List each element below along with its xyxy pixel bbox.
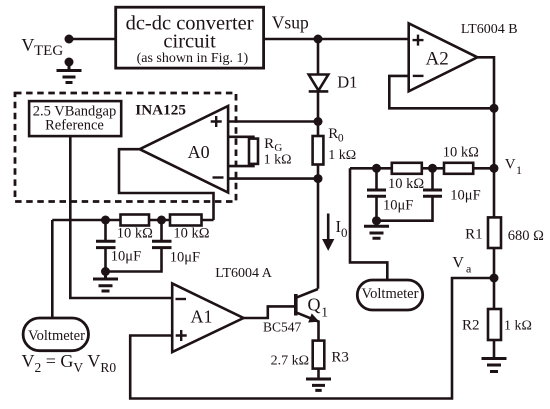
- 2.5 V Bandgap Reference box: [29, 101, 121, 136]
- wire center rail R0 to Q1 collector: [317, 179, 320, 289]
- svg-text:LT6004 B: LT6004 B: [461, 22, 518, 37]
- svg-text:Q: Q: [308, 295, 321, 315]
- svg-text:10μF: 10μF: [170, 250, 200, 266]
- wire left filter chain: [52, 219, 213, 222]
- svg-text:R1: R1: [465, 227, 483, 243]
- svg-text:R2: R2: [462, 318, 480, 334]
- node right filter cap2: [428, 164, 437, 173]
- node V1: [490, 164, 499, 173]
- op-amp A0 (INA125 input stage, points left): [140, 106, 228, 193]
- node VTEG ground terminal: [65, 58, 74, 67]
- svg-text:10μF: 10μF: [111, 249, 141, 265]
- svg-text:BC547: BC547: [263, 320, 302, 335]
- resistor 10k left chain second: [170, 215, 202, 226]
- svg-text:V: V: [21, 35, 34, 55]
- node Vsup: [314, 35, 323, 44]
- wire A1 output to Q1 base: [244, 306, 296, 318]
- svg-text:1 kΩ: 1 kΩ: [264, 153, 292, 168]
- wire right rail down to V1: [493, 108, 496, 168]
- wire A0 output path: [119, 149, 214, 220]
- resistor 10k left chain first: [121, 215, 150, 226]
- pin - of A2: [413, 75, 424, 77]
- svg-text:a: a: [466, 262, 472, 276]
- svg-text:D1: D1: [337, 73, 357, 92]
- ground: [364, 221, 389, 239]
- wire RG pin lower: [228, 164, 253, 166]
- svg-text:10μF: 10μF: [450, 188, 480, 204]
- node R0 top: [314, 117, 323, 126]
- resistor RG: [249, 139, 258, 164]
- svg-text:Vsup: Vsup: [272, 13, 309, 33]
- wire A0 + input to R0 top node: [228, 120, 318, 123]
- wire Vsup node down to D1: [317, 39, 320, 75]
- wire A0 - input to R0 bottom node: [228, 177, 318, 180]
- wire voltmeter V2 lead: [51, 220, 54, 318]
- wire A2 feedback (output to - input): [389, 76, 494, 108]
- wire right filter chain: [350, 167, 494, 170]
- svg-text:10 kΩ: 10 kΩ: [388, 176, 424, 192]
- pin - of A1: [176, 298, 187, 300]
- pin + of A1: [176, 330, 187, 341]
- wire Vsup: dc-dc box to A2 + input: [264, 38, 409, 41]
- svg-text:Voltmeter: Voltmeter: [362, 286, 419, 302]
- resistor R1: [488, 217, 501, 248]
- arrow I0: [323, 214, 334, 250]
- svg-text:680 Ω: 680 Ω: [508, 228, 544, 244]
- wire A1 + input feedback from Va: [130, 278, 494, 399]
- dc-dc converter box: [116, 7, 264, 68]
- voltmeter Va: [357, 280, 422, 310]
- pin + of A2: [413, 35, 424, 46]
- op-amp A2: [409, 23, 478, 91]
- svg-text:10μF: 10μF: [383, 198, 413, 214]
- ground: [306, 379, 331, 390]
- svg-text:A1: A1: [191, 307, 213, 327]
- node left filter cap1: [101, 216, 110, 225]
- transistor Q1: [296, 289, 319, 341]
- ground: [482, 359, 507, 372]
- svg-text:R3: R3: [331, 350, 349, 366]
- op-amp A1: [172, 283, 243, 352]
- svg-text:R: R: [328, 126, 338, 142]
- node VTEG terminal: [65, 35, 74, 44]
- resistor 10k right chain first: [392, 163, 422, 174]
- resistor R2: [488, 309, 501, 340]
- capacitor 10uF right second: [377, 168, 443, 220]
- node Va: [490, 274, 499, 283]
- wire bandgap reference output: [70, 136, 172, 298]
- wire VTEG to dc-dc box: [69, 38, 116, 41]
- svg-text:INA125: INA125: [135, 102, 186, 119]
- svg-text:10 kΩ: 10 kΩ: [173, 226, 209, 242]
- wire D1 to R0 top node: [317, 91, 320, 121]
- svg-text:0: 0: [338, 133, 344, 145]
- svg-text:TEG: TEG: [34, 43, 63, 59]
- wire RG pin upper: [228, 137, 253, 139]
- node R0 bottom: [314, 174, 323, 183]
- wire R3 to ground: [317, 369, 320, 379]
- INA125 dashed box: [15, 93, 236, 202]
- wire Va to R2 to ground: [493, 278, 496, 359]
- node right filter cap1: [372, 164, 381, 173]
- ground: [93, 272, 118, 292]
- node A2 output junction: [490, 104, 499, 113]
- svg-text:1 kΩ: 1 kΩ: [328, 148, 356, 163]
- resistor R0: [313, 136, 324, 165]
- svg-text:R: R: [264, 136, 274, 152]
- svg-text:V2 = GV VR0: V2 = GV VR0: [22, 351, 117, 375]
- svg-text:10 kΩ: 10 kΩ: [117, 226, 153, 242]
- svg-text:Reference: Reference: [45, 118, 104, 134]
- capacitor 10uF left second: [106, 220, 172, 272]
- svg-text:2.7 kΩ: 2.7 kΩ: [271, 354, 309, 369]
- wire right voltmeter lead: [350, 168, 387, 280]
- resistor R3: [313, 341, 325, 369]
- svg-text:A2: A2: [426, 49, 449, 70]
- diode D1: [309, 75, 329, 92]
- resistor 10k right chain second: [444, 163, 473, 174]
- svg-text:1: 1: [321, 304, 328, 319]
- ground: [57, 62, 82, 83]
- pin - of A0: [213, 176, 224, 178]
- svg-text:0: 0: [341, 225, 348, 240]
- svg-text:LT6004 A: LT6004 A: [215, 266, 273, 281]
- svg-text:V: V: [452, 254, 464, 271]
- svg-text:(as shown in Fig. 1): (as shown in Fig. 1): [137, 51, 249, 66]
- svg-text:1: 1: [516, 163, 522, 177]
- svg-text:1 kΩ: 1 kΩ: [504, 319, 532, 334]
- node right filter ground junction: [372, 216, 381, 225]
- wire V1 to R1 to Va: [493, 168, 496, 278]
- capacitor 10uF right first: [367, 168, 386, 220]
- pin + of A0: [211, 116, 222, 127]
- svg-text:circuit: circuit: [163, 30, 216, 52]
- svg-text:V: V: [505, 157, 516, 173]
- wire R0 leads: [317, 122, 320, 179]
- svg-text:10 kΩ: 10 kΩ: [443, 145, 479, 161]
- node left filter ground junction: [101, 267, 110, 276]
- node left filter cap2: [157, 216, 166, 225]
- wire A2 output: [477, 57, 494, 108]
- capacitor 10uF left first: [96, 220, 116, 272]
- voltmeter V2: [23, 318, 88, 351]
- svg-text:Voltmeter: Voltmeter: [28, 328, 85, 344]
- svg-text:A0: A0: [188, 142, 210, 162]
